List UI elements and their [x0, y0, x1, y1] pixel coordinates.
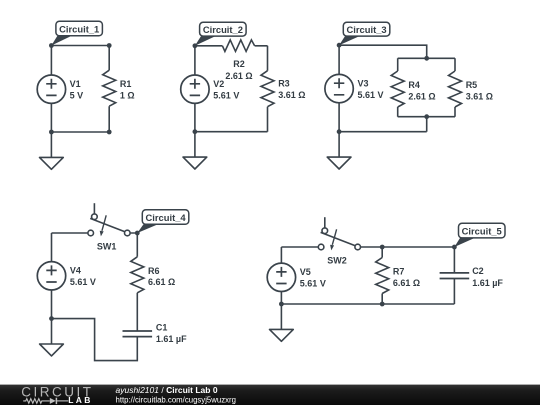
- svg-text:2.61 Ω: 2.61 Ω: [408, 91, 435, 101]
- svg-text:6.61 Ω: 6.61 Ω: [393, 278, 420, 288]
- svg-text:5 V: 5 V: [70, 90, 84, 100]
- svg-text:3.61 Ω: 3.61 Ω: [278, 90, 305, 100]
- svg-text:R1: R1: [120, 79, 132, 89]
- svg-text:C2: C2: [472, 266, 484, 276]
- svg-text:V1: V1: [70, 79, 81, 89]
- svg-text:3.61 Ω: 3.61 Ω: [466, 91, 493, 101]
- svg-text:V5: V5: [300, 267, 311, 277]
- svg-text:R7: R7: [393, 267, 405, 277]
- svg-text:5.61 V: 5.61 V: [213, 90, 239, 100]
- svg-text:R3: R3: [278, 79, 290, 89]
- svg-text:R5: R5: [466, 80, 478, 90]
- svg-text:1.61 µF: 1.61 µF: [472, 278, 503, 288]
- svg-text:R6: R6: [148, 266, 160, 276]
- svg-text:1 Ω: 1 Ω: [120, 91, 135, 101]
- svg-text:5.61 V: 5.61 V: [300, 279, 326, 289]
- svg-text:SW2: SW2: [327, 256, 347, 266]
- svg-text:SW1: SW1: [97, 241, 117, 251]
- svg-text:1.61 µF: 1.61 µF: [156, 334, 187, 344]
- svg-text:R4: R4: [408, 80, 420, 90]
- svg-text:5.61 V: 5.61 V: [70, 277, 96, 287]
- svg-text:Circuit_2: Circuit_2: [203, 24, 243, 35]
- svg-text:Circuit_3: Circuit_3: [347, 24, 387, 35]
- svg-text:5.61 V: 5.61 V: [358, 90, 384, 100]
- svg-text:http://circuitlab.com/cugsyj5w: http://circuitlab.com/cugsyj5wuzxrg: [116, 395, 236, 404]
- svg-text:V4: V4: [70, 266, 81, 276]
- svg-text:2.61 Ω: 2.61 Ω: [225, 71, 252, 81]
- svg-text:Circuit_4: Circuit_4: [146, 212, 187, 223]
- svg-text:C1: C1: [156, 323, 168, 333]
- svg-text:V3: V3: [358, 78, 369, 88]
- svg-text:6.61 Ω: 6.61 Ω: [148, 277, 175, 287]
- svg-text:LAB: LAB: [68, 395, 92, 405]
- svg-text:ayushi2101 / Circuit Lab 0: ayushi2101 / Circuit Lab 0: [116, 385, 218, 395]
- svg-text:Circuit_5: Circuit_5: [462, 226, 502, 237]
- svg-text:R2: R2: [233, 59, 245, 69]
- svg-text:Circuit_1: Circuit_1: [59, 24, 99, 35]
- svg-text:V2: V2: [213, 79, 224, 89]
